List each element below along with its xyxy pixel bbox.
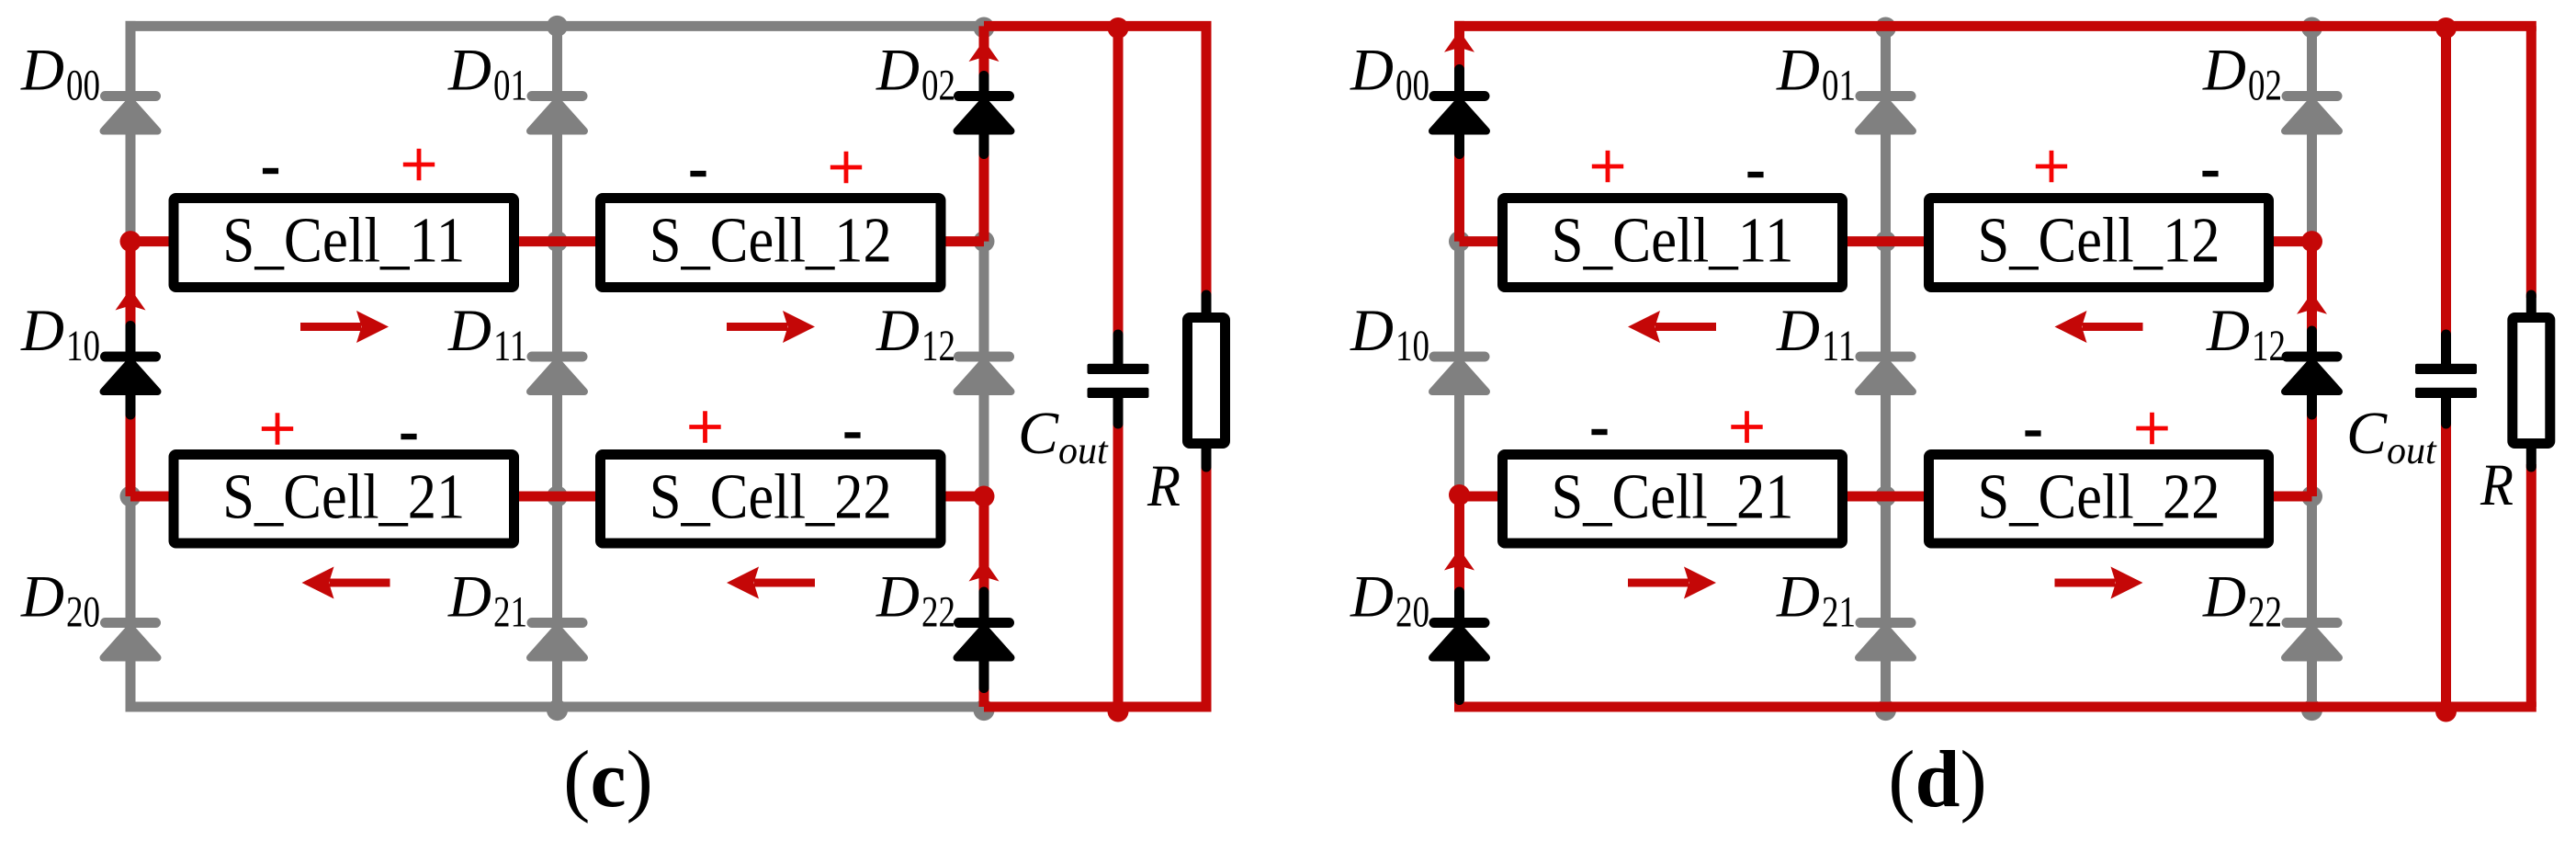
svg-text:D: D [1350,564,1394,631]
svg-text:D: D [20,38,64,104]
svg-text:S_Cell_21: S_Cell_21 [222,461,465,532]
svg-text:C: C [2346,400,2388,467]
svg-text:21: 21 [493,588,527,637]
minus sign cell22 (c) [844,432,860,438]
solar cell S_Cell_11 (c) [174,199,514,288]
solar cell S_Cell_12 (d) [1929,199,2269,288]
arrow flow right under cell11 (c) [300,311,389,343]
arrow current up through D12 (d) [2297,292,2327,314]
wire red R branch upper (d) [2526,26,2536,298]
arrow flow right under cell21 (d) [1628,567,1716,599]
label D11 (d) [1776,298,1856,370]
minus sign cell11 (c) [263,168,278,174]
svg-text:D: D [1776,564,1820,631]
label D00 (c) [20,38,100,110]
diode D20 (d) black conducting [1429,592,1490,700]
node red top Cout junction (d) [2435,17,2457,39]
svg-text:00: 00 [1395,62,1429,110]
svg-text:S_Cell_22: S_Cell_22 [1978,461,2220,532]
minus sign cell22 (d) [2025,430,2040,436]
wire red row1 between cells (d) [1838,236,1933,246]
wire red left rail D10 segment (c) [126,242,136,496]
node gray bottom middle rail (d) [1875,699,1896,721]
capacitor Cout (d) [2415,335,2477,424]
label D20 (c) [20,564,100,637]
plus sign cell11 (c) [403,149,435,180]
arrow current up through D00 (d) [1444,30,1474,52]
wire gray left rail bottom segment (c) [126,496,136,712]
arrow current up through D20 (d) [1444,549,1474,571]
diode D02 (d) gray [2282,91,2343,131]
diode D22 (d) gray [2282,618,2343,658]
diode D10 (c) black conducting [100,326,161,415]
svg-text:D: D [447,38,491,104]
node gray row2 right rail (d) [2301,486,2322,507]
solar cell S_Cell_22 (c) [601,455,942,544]
svg-text:20: 20 [66,588,100,637]
svg-text:S_Cell_11: S_Cell_11 [222,206,465,277]
diode D10 (d) gray [1429,352,1490,392]
minus sign cell12 (c) [690,171,706,176]
wire red row1 cell11 lead-in (c) [130,236,178,246]
svg-text:out: out [1058,430,1109,472]
svg-text:S_Cell_12: S_Cell_12 [650,206,892,277]
minus sign cell12 (d) [2202,171,2218,176]
diode D00 (c) gray [100,91,161,131]
solar cell S_Cell_22 (d) [1929,455,2269,544]
label D22 (d) [2202,564,2282,637]
label D12 (c) [876,298,955,370]
svg-text:02: 02 [2248,62,2282,110]
wire red row2 cell21 lead-in (d) [1460,492,1508,502]
svg-text:S_Cell_11: S_Cell_11 [1552,206,1794,277]
svg-text:01: 01 [493,62,527,110]
node red row2 left rail (d) [1449,484,1470,506]
wire red left rail D20 segment (d) [1454,496,1464,664]
svg-text:(d): (d) [1888,735,1987,824]
svg-text:D: D [876,38,920,104]
label D01 (d) [1776,38,1856,110]
wire red row1 cell12 to right rail (c) [937,236,985,246]
wire red top bus to load (c) [984,21,1212,31]
wire red top bus (d) [1454,21,2536,31]
label D02 (c) [876,38,955,110]
svg-text:01: 01 [1822,62,1856,110]
svg-text:D: D [2202,564,2246,631]
node gray bottom right rail (c) [974,699,995,721]
wire red R branch lower (c) [1202,464,1212,707]
svg-text:C: C [1018,400,1059,467]
svg-text:12: 12 [921,322,955,370]
svg-text:R: R [2480,452,2514,518]
wire red row1 between cells (c) [510,236,604,246]
label D22 (c) [876,564,955,637]
wire gray middle rail (d) [1881,26,1891,707]
svg-text:20: 20 [1395,588,1429,637]
label D10 (d) [1350,298,1429,370]
wire gray middle rail (c) [552,26,562,707]
label D02 (d) [2202,38,2282,110]
svg-text:R: R [1147,453,1181,519]
diode D11 (c) gray [527,352,588,392]
arrow flow left under cell11 (d) [1628,311,1716,343]
wire red row2 between cells (d) [1838,492,1933,502]
plus sign cell11 (d) [1592,151,1623,182]
label D11 (c) [447,298,527,370]
svg-text:S_Cell_21: S_Cell_21 [1552,461,1794,532]
diode D02 (c) black conducting [954,76,1014,154]
arrow flow right under cell12 (c) [727,311,815,343]
wire red right rail D02 segment (c) [979,26,989,241]
svg-text:D: D [1350,298,1394,364]
label D00 (d) [1350,38,1429,110]
arrow flow left under cell12 (d) [2055,311,2143,343]
node gray bottom right rail (d) [2301,699,2322,721]
label D20 (d) [1350,564,1429,637]
plus sign cell21 (c) [262,413,293,444]
resistor R (d) [2513,295,2550,467]
label D10 (c) [20,298,100,370]
svg-text:12: 12 [2252,322,2286,370]
wire red row2 cell22 to right rail (c) [937,492,985,502]
svg-text:D: D [20,298,64,364]
wire gray top bus (c) [126,21,985,31]
wire red Cout branch lower (d) [2441,422,2451,707]
node red row2 right rail (c) [974,486,995,507]
wire gray right rail top segment (d) [2307,26,2317,241]
wire gray right rail bottom segment (d) [2307,496,2317,707]
wire red bottom bus to load (c) [984,702,1212,712]
node gray top middle rail (c) [547,16,568,37]
arrow flow right under cell22 (d) [2055,567,2143,599]
svg-text:D: D [876,564,920,631]
svg-text:D: D [876,298,920,364]
svg-text:D: D [447,564,491,631]
label D21 (c) [447,564,527,637]
svg-text:D: D [1776,298,1820,364]
node red top Cout junction (c) [1108,17,1129,39]
node gray row1 middle rail (c) [547,231,568,252]
svg-text:10: 10 [66,322,100,370]
svg-text:11: 11 [1822,322,1856,370]
wire red Cout branch lower (c) [1113,422,1124,707]
label Cout (d) [2346,400,2437,472]
node gray top right rail (c) [974,17,995,39]
minus sign cell21 (d) [1591,429,1607,435]
node gray row2 left rail (c) [120,486,141,507]
svg-text:S_Cell_12: S_Cell_12 [1978,206,2220,277]
svg-text:D: D [2202,38,2246,104]
plus sign cell22 (c) [689,411,720,442]
wire red R branch lower (d) [2526,464,2536,707]
label D21 (d) [1776,564,1856,637]
plus sign cell12 (d) [2036,151,2067,182]
svg-text:S_Cell_22: S_Cell_22 [650,461,892,532]
node red row1 left rail (c) [120,231,141,252]
svg-text:D: D [1776,38,1820,104]
svg-text:22: 22 [2248,588,2282,637]
node gray row1 left rail (d) [1449,231,1470,252]
wire red row2 between cells (c) [510,492,604,502]
plus sign cell21 (d) [1731,411,1762,442]
wire gray left rail top segment (c) [126,21,136,242]
plus sign cell12 (c) [830,152,862,183]
resistor R (c) [1188,295,1226,467]
node red row1 right rail (d) [2301,231,2322,252]
node gray row2 middle rail (c) [547,486,568,507]
wire red row1 cell12 to right rail (d) [2265,236,2312,246]
label D12 (d) [2206,298,2286,370]
arrow flow left under cell22 (c) [727,567,815,599]
svg-text:(c): (c) [563,735,653,824]
wire red row2 cell22 to right rail (d) [2265,492,2312,502]
arrow flow left under cell21 (c) [302,567,390,599]
solar cell S_Cell_12 (c) [601,199,942,288]
svg-text:D: D [20,564,64,631]
wire gray left rail D10 segment (d) [1454,242,1464,496]
capacitor Cout (c) [1088,335,1149,424]
diode D22 (c) black conducting [954,592,1014,688]
svg-text:D: D [2206,298,2250,364]
label Cout (c) [1018,400,1109,472]
node gray top right rail (d) [2301,17,2322,39]
minus sign cell21 (c) [401,434,416,439]
minus sign cell11 (d) [1747,172,1763,177]
svg-text:out: out [2387,430,2437,472]
wire red right rail D22 segment (c) [979,496,989,707]
svg-text:21: 21 [1822,588,1856,637]
svg-text:10: 10 [1395,322,1429,370]
arrow current up through D02 (c) [969,40,1000,63]
svg-text:D: D [447,298,491,364]
node gray bottom middle rail (c) [547,699,568,721]
node red bottom Cout junction (c) [1108,701,1129,722]
wire red Cout branch upper (c) [1113,26,1124,337]
node gray row2 middle rail (d) [1875,486,1896,507]
diode D01 (d) gray [1856,91,1916,131]
svg-text:D: D [1350,38,1394,104]
diode D21 (d) gray [1856,618,1916,658]
diode D12 (c) gray [954,352,1014,392]
node red bottom Cout junction (d) [2435,701,2457,722]
plus sign cell22 (d) [2136,413,2167,444]
diode D20 (c) gray [100,618,161,658]
diode D21 (c) gray [527,618,588,658]
wire red right rail D12 segment (d) [2307,242,2317,496]
solar cell S_Cell_21 (c) [174,455,514,544]
diode D01 (c) gray [527,91,588,131]
solar cell S_Cell_21 (d) [1503,455,1843,544]
wire red row1 cell11 lead-in (d) [1460,236,1508,246]
solar cell S_Cell_11 (d) [1503,199,1843,288]
wire red bottom bus (d) [1454,702,2536,712]
wire red row2 cell21 lead-in (c) [130,492,178,502]
node gray row1 right rail (c) [974,231,995,252]
svg-text:00: 00 [66,62,100,110]
diode D11 (d) gray [1856,352,1916,392]
wire red R branch upper (c) [1202,26,1212,298]
diode D00 (d) black conducting [1429,70,1490,154]
arrow current up through D22 (c) [969,560,1000,582]
svg-text:11: 11 [493,322,527,370]
arrow current up through D10 (c) [116,289,146,311]
wire gray bottom bus (c) [126,702,985,712]
wire gray right rail middle segment (c) [979,242,989,496]
wire red left rail D00 segment (d) [1454,21,1464,242]
wire red Cout branch upper (d) [2441,26,2451,337]
node gray top middle rail (d) [1875,17,1896,39]
svg-text:02: 02 [921,62,955,110]
node gray row1 middle rail (d) [1875,231,1896,252]
svg-text:22: 22 [921,588,955,637]
label D01 (c) [447,38,527,110]
diode D12 (d) black conducting [2282,331,2343,415]
